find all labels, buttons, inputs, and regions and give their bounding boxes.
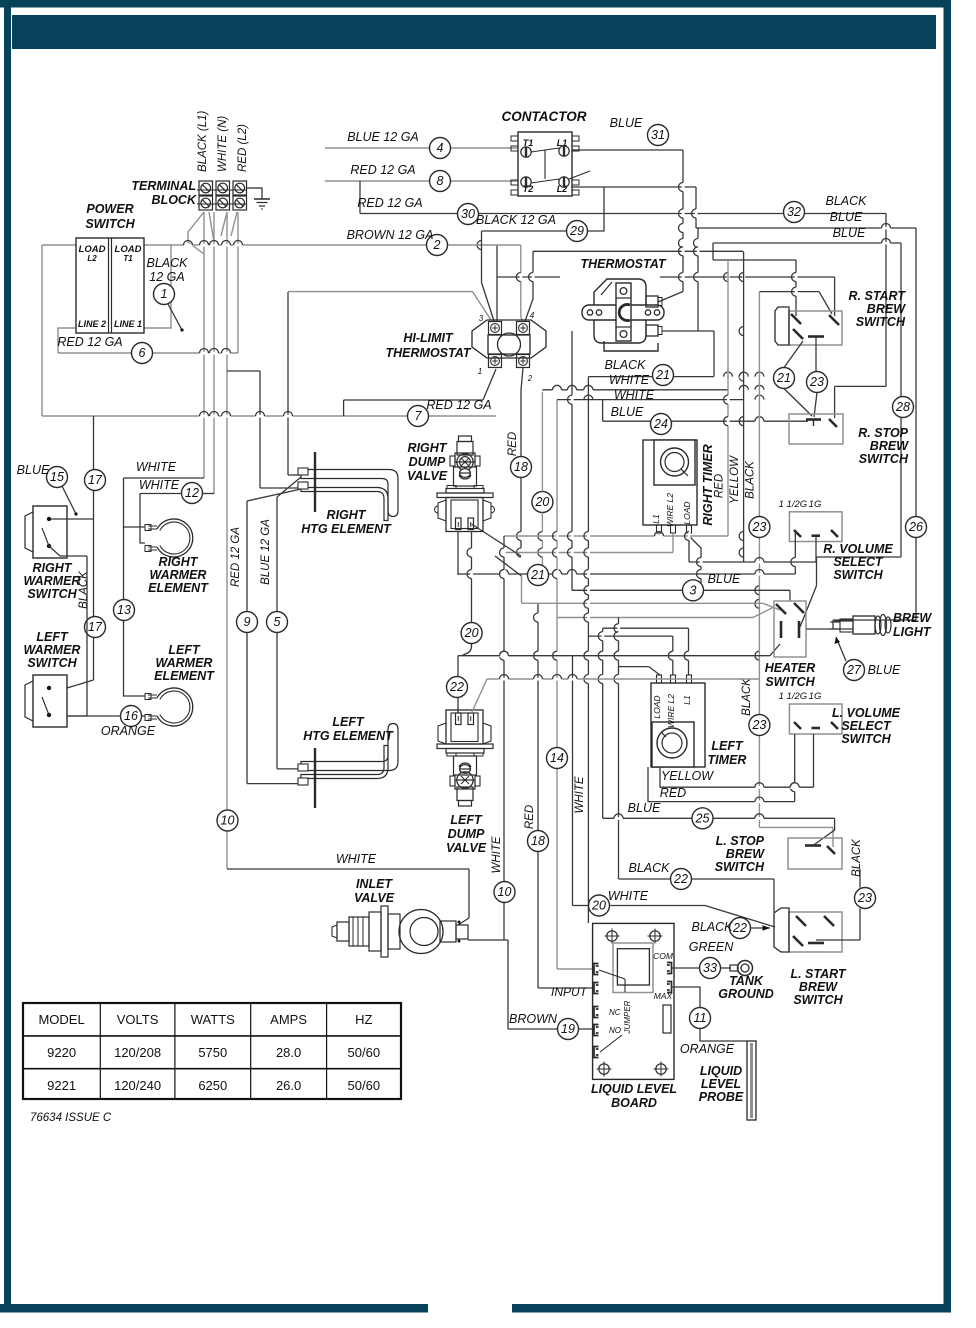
svg-text:21: 21: [530, 568, 545, 582]
svg-text:1: 1: [478, 367, 482, 376]
svg-text:BLOCK: BLOCK: [152, 193, 197, 207]
svg-text:BLACK: BLACK: [741, 677, 753, 716]
svg-text:LEVEL: LEVEL: [701, 1077, 741, 1091]
svg-text:21: 21: [655, 368, 670, 382]
svg-text:120/240: 120/240: [114, 1078, 161, 1093]
svg-text:NC: NC: [609, 1008, 621, 1017]
svg-text:ORANGE: ORANGE: [680, 1042, 735, 1056]
svg-text:COM: COM: [653, 951, 674, 961]
svg-text:JUMPER: JUMPER: [623, 1000, 632, 1034]
svg-text:GREEN: GREEN: [689, 940, 734, 954]
svg-text:LINE 1: LINE 1: [114, 319, 142, 329]
svg-text:T1: T1: [123, 254, 133, 263]
svg-text:RED 12 GA: RED 12 GA: [350, 163, 415, 177]
svg-text:6: 6: [139, 346, 146, 360]
svg-text:BROWN: BROWN: [509, 1012, 558, 1026]
svg-text:RIGHT: RIGHT: [327, 508, 367, 522]
svg-text:HTG ELEMENT: HTG ELEMENT: [303, 729, 394, 743]
svg-text:29: 29: [569, 224, 584, 238]
svg-text:RED: RED: [660, 786, 686, 800]
svg-text:WHITE: WHITE: [336, 852, 377, 866]
svg-text:BLACK: BLACK: [605, 358, 647, 372]
svg-text:R. STOP: R. STOP: [858, 426, 908, 440]
svg-text:26: 26: [908, 520, 923, 534]
svg-text:BREW: BREW: [893, 611, 932, 625]
svg-text:INLET: INLET: [356, 877, 393, 891]
svg-text:MAX: MAX: [654, 991, 673, 1001]
svg-text:BLUE: BLUE: [611, 405, 644, 419]
svg-text:BLACK (L1): BLACK (L1): [197, 110, 209, 172]
svg-text:INPUT: INPUT: [551, 985, 589, 999]
svg-text:WHITE: WHITE: [139, 478, 180, 492]
svg-text:HTG ELEMENT: HTG ELEMENT: [301, 522, 392, 536]
svg-text:WATTS: WATTS: [191, 1012, 235, 1027]
svg-text:R. VOLUME: R. VOLUME: [823, 542, 893, 556]
svg-text:26.0: 26.0: [276, 1078, 301, 1093]
svg-text:TANK: TANK: [729, 974, 764, 988]
svg-text:DUMP: DUMP: [409, 455, 446, 469]
svg-text:VALVE: VALVE: [407, 469, 448, 483]
svg-text:23: 23: [751, 718, 766, 732]
svg-text:WHITE (N): WHITE (N): [217, 116, 229, 172]
svg-text:7: 7: [415, 409, 423, 423]
svg-text:SWITCH: SWITCH: [833, 568, 883, 582]
svg-text:BLUE 12 GA: BLUE 12 GA: [347, 130, 419, 144]
svg-text:BLACK: BLACK: [826, 194, 868, 208]
svg-text:SELECT: SELECT: [833, 555, 884, 569]
svg-text:HEATER: HEATER: [765, 661, 815, 675]
svg-text:2: 2: [433, 238, 441, 252]
svg-text:SWITCH: SWITCH: [715, 860, 765, 874]
svg-text:9220: 9220: [47, 1045, 76, 1060]
svg-text:T2: T2: [523, 184, 534, 194]
svg-text:RED 12 GA: RED 12 GA: [230, 527, 242, 587]
svg-text:33: 33: [703, 961, 717, 975]
svg-text:HI-LIMIT: HI-LIMIT: [403, 331, 454, 345]
svg-text:HZ: HZ: [355, 1012, 372, 1027]
svg-text:LOAD: LOAD: [652, 695, 662, 718]
svg-text:BREW: BREW: [867, 302, 906, 316]
svg-text:BREW: BREW: [726, 847, 765, 861]
svg-text:PROBE: PROBE: [699, 1090, 744, 1104]
svg-text:6250: 6250: [198, 1078, 227, 1093]
svg-text:TERMINAL: TERMINAL: [131, 179, 196, 193]
svg-text:50/60: 50/60: [348, 1045, 381, 1060]
svg-text:BREW: BREW: [870, 439, 909, 453]
svg-text:WHITE: WHITE: [574, 776, 586, 813]
svg-text:RED 12 GA: RED 12 GA: [426, 398, 491, 412]
svg-text:RIGHT TIMER: RIGHT TIMER: [701, 444, 715, 525]
svg-text:BLACK: BLACK: [629, 861, 671, 875]
svg-text:16: 16: [124, 709, 138, 723]
svg-text:WARMER: WARMER: [156, 656, 213, 670]
svg-text:BLACK: BLACK: [147, 256, 189, 270]
svg-text:BLUE: BLUE: [868, 663, 901, 677]
svg-text:18: 18: [514, 460, 528, 474]
svg-text:9221: 9221: [47, 1078, 76, 1093]
svg-text:GROUND: GROUND: [718, 987, 774, 1001]
svg-text:SWITCH: SWITCH: [856, 315, 906, 329]
svg-text:12 GA: 12 GA: [149, 270, 184, 284]
svg-text:9: 9: [244, 615, 251, 629]
svg-text:27: 27: [846, 663, 862, 677]
svg-text:WARMER: WARMER: [24, 574, 81, 588]
svg-text:AMPS: AMPS: [270, 1012, 307, 1027]
svg-text:BLACK: BLACK: [78, 570, 90, 609]
svg-text:3: 3: [479, 314, 484, 323]
svg-text:20: 20: [591, 899, 606, 913]
svg-text:2: 2: [527, 374, 533, 383]
svg-text:15: 15: [50, 470, 64, 484]
svg-text:LEFT: LEFT: [168, 643, 201, 657]
svg-text:22: 22: [673, 872, 688, 886]
svg-text:BLUE: BLUE: [610, 116, 643, 130]
svg-text:RIGHT: RIGHT: [159, 555, 199, 569]
svg-text:WIRE L2: WIRE L2: [666, 694, 676, 728]
svg-text:LIQUID: LIQUID: [700, 1064, 742, 1078]
svg-text:L. START: L. START: [790, 967, 846, 981]
svg-text:120/208: 120/208: [114, 1045, 161, 1060]
svg-text:THERMOSTAT: THERMOSTAT: [581, 257, 667, 271]
svg-text:1G: 1G: [809, 691, 822, 702]
svg-text:LEFT: LEFT: [450, 813, 483, 827]
svg-text:ELEMENT: ELEMENT: [154, 669, 215, 683]
svg-text:BLUE: BLUE: [708, 572, 741, 586]
svg-text:4: 4: [437, 141, 444, 155]
svg-text:32: 32: [787, 205, 801, 219]
svg-text:WARMER: WARMER: [150, 568, 207, 582]
svg-text:L. STOP: L. STOP: [716, 834, 765, 848]
svg-text:13: 13: [117, 603, 131, 617]
svg-text:WHITE: WHITE: [614, 388, 655, 402]
svg-text:1G: 1G: [809, 499, 822, 510]
svg-text:WARMER: WARMER: [24, 643, 81, 657]
svg-text:TIMER: TIMER: [708, 753, 747, 767]
svg-text:VALVE: VALVE: [354, 891, 395, 905]
svg-text:22: 22: [449, 680, 464, 694]
svg-text:WHITE: WHITE: [491, 836, 503, 873]
svg-text:POWER: POWER: [86, 202, 133, 216]
svg-text:30: 30: [461, 207, 475, 221]
svg-text:BLUE: BLUE: [833, 226, 866, 240]
svg-text:28.0: 28.0: [276, 1045, 301, 1060]
svg-text:SWITCH: SWITCH: [793, 993, 843, 1007]
svg-text:BLACK 12 GA: BLACK 12 GA: [476, 213, 556, 227]
svg-text:RED: RED: [714, 474, 726, 498]
svg-text:14: 14: [550, 751, 564, 765]
svg-text:LIQUID LEVEL: LIQUID LEVEL: [591, 1082, 677, 1096]
svg-text:BLACK: BLACK: [851, 838, 863, 877]
svg-text:3: 3: [690, 584, 697, 598]
svg-text:L1: L1: [682, 695, 692, 705]
svg-text:RIGHT: RIGHT: [408, 441, 448, 455]
svg-text:10: 10: [498, 885, 512, 899]
svg-text:WHITE: WHITE: [608, 889, 649, 903]
svg-text:BROWN 12 GA: BROWN 12 GA: [347, 228, 434, 242]
svg-text:LIGHT: LIGHT: [893, 625, 932, 639]
svg-text:L2: L2: [87, 254, 97, 263]
svg-text:R. START: R. START: [849, 289, 907, 303]
svg-text:17: 17: [88, 473, 103, 487]
svg-text:23: 23: [751, 520, 766, 534]
svg-text:76634 ISSUE C: 76634 ISSUE C: [30, 1112, 112, 1124]
svg-text:LEFT: LEFT: [36, 630, 69, 644]
svg-text:1 1/2G: 1 1/2G: [779, 499, 808, 510]
svg-text:20: 20: [464, 626, 479, 640]
svg-text:18: 18: [531, 834, 545, 848]
svg-text:12: 12: [185, 486, 199, 500]
svg-text:10: 10: [221, 814, 235, 828]
svg-text:L2: L2: [557, 184, 568, 194]
svg-text:VALVE: VALVE: [446, 841, 487, 855]
svg-text:YELLOW: YELLOW: [729, 455, 741, 504]
svg-text:19: 19: [561, 1022, 575, 1036]
svg-text:SWITCH: SWITCH: [27, 656, 77, 670]
svg-text:DUMP: DUMP: [448, 827, 485, 841]
svg-text:1 1/2G: 1 1/2G: [779, 691, 808, 702]
svg-text:SWITCH: SWITCH: [765, 675, 815, 689]
svg-text:LOAD: LOAD: [682, 501, 692, 524]
svg-text:WHITE: WHITE: [136, 460, 177, 474]
svg-text:RED 12 GA: RED 12 GA: [357, 196, 422, 210]
svg-text:31: 31: [651, 128, 665, 142]
svg-text:BOARD: BOARD: [611, 1096, 657, 1110]
svg-text:YELLOW: YELLOW: [661, 769, 714, 783]
svg-text:5750: 5750: [198, 1045, 227, 1060]
svg-text:1: 1: [161, 287, 168, 301]
svg-text:THERMOSTAT: THERMOSTAT: [386, 346, 472, 360]
svg-text:24: 24: [653, 417, 668, 431]
svg-text:17: 17: [88, 620, 103, 634]
svg-text:VOLTS: VOLTS: [117, 1012, 159, 1027]
svg-text:22: 22: [732, 921, 747, 935]
svg-text:SWITCH: SWITCH: [859, 452, 909, 466]
svg-text:BLACK: BLACK: [692, 920, 734, 934]
svg-text:RED (L2): RED (L2): [237, 124, 249, 172]
svg-text:ORANGE: ORANGE: [101, 724, 156, 738]
svg-text:WHITE: WHITE: [609, 373, 650, 387]
svg-text:4: 4: [530, 311, 535, 320]
svg-text:BLACK: BLACK: [745, 460, 757, 499]
svg-text:NO: NO: [609, 1026, 621, 1035]
svg-text:LINE 2: LINE 2: [78, 319, 106, 329]
svg-text:23: 23: [857, 891, 872, 905]
svg-text:LEFT: LEFT: [711, 739, 744, 753]
svg-text:BLUE: BLUE: [17, 463, 50, 477]
svg-text:CONTACTOR: CONTACTOR: [502, 109, 587, 124]
svg-text:L1: L1: [651, 514, 661, 524]
svg-text:SWITCH: SWITCH: [27, 587, 77, 601]
svg-text:23: 23: [809, 375, 824, 389]
svg-text:SWITCH: SWITCH: [841, 732, 891, 746]
svg-text:ELEMENT: ELEMENT: [148, 581, 209, 595]
svg-text:BLUE: BLUE: [628, 801, 661, 815]
svg-text:BREW: BREW: [799, 980, 838, 994]
svg-text:WIRE L2: WIRE L2: [665, 493, 675, 527]
svg-text:LEFT: LEFT: [332, 715, 365, 729]
svg-text:5: 5: [274, 615, 281, 629]
svg-text:SELECT: SELECT: [841, 719, 892, 733]
svg-text:RED: RED: [524, 805, 536, 829]
svg-text:BLUE 12 GA: BLUE 12 GA: [260, 519, 272, 585]
svg-text:8: 8: [437, 174, 444, 188]
svg-text:MODEL: MODEL: [38, 1012, 84, 1027]
svg-text:RED: RED: [507, 432, 519, 456]
svg-text:RED 12 GA: RED 12 GA: [57, 335, 122, 349]
svg-text:L. VOLUME: L. VOLUME: [832, 706, 901, 720]
svg-text:RIGHT: RIGHT: [33, 561, 73, 575]
svg-text:11: 11: [694, 1011, 707, 1025]
svg-text:SWITCH: SWITCH: [85, 217, 135, 231]
svg-text:21: 21: [776, 371, 791, 385]
svg-text:BLUE: BLUE: [830, 210, 863, 224]
svg-text:50/60: 50/60: [348, 1078, 381, 1093]
svg-text:20: 20: [534, 495, 549, 509]
svg-text:25: 25: [695, 812, 710, 826]
svg-text:28: 28: [895, 400, 910, 414]
